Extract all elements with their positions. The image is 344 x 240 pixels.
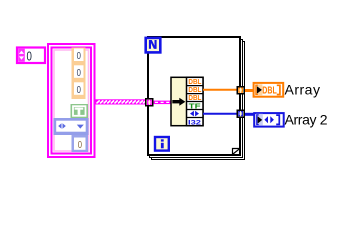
boolean constant T [71,104,89,118]
output tunnel DBL [236,86,245,95]
numeric constant DBL 0 (1) [72,48,86,64]
svg-text:TF: TF [189,101,202,110]
wire: DBL array to indicator [245,89,253,92]
array index display [17,48,45,64]
svg-text:DBL: DBL [262,84,277,96]
array constant shell [48,44,95,157]
page curl (dog-ear) [233,149,241,155]
wire: DBL scalar inside loop [203,89,237,91]
for loop page 3 (back) [151,41,245,160]
for loop page 2 [149,39,243,158]
unbundle input arrow [172,98,185,106]
wire: ring scalar inside loop [203,113,237,115]
output tunnel ring [236,109,245,118]
svg-text:Array: Array [285,81,321,97]
svg-text:0: 0 [77,68,82,79]
indicator Array (DBL array) [254,83,284,97]
svg-text:0: 0 [78,140,83,151]
wire: ring array to indicator [245,113,254,116]
ring constant [54,118,89,135]
unbundle function body [171,77,203,125]
terminal ring [190,111,199,117]
indicator Array 2 (ring array) [254,113,284,127]
svg-text:Array 2: Array 2 [285,111,328,127]
N terminal [146,38,161,53]
unbundle terminal rows [187,77,204,125]
svg-text:0: 0 [27,49,32,63]
wire: cluster (dashed magenta) [154,101,172,105]
numeric constant I32 0 [72,135,89,152]
wire: thick array-of-clusters (hatched magenta) [95,99,145,104]
i terminal [155,137,169,151]
cluster constant frame [52,48,92,154]
svg-text:0: 0 [77,85,82,96]
numeric constant DBL 0 (3) [72,80,86,99]
for loop front frame [147,36,241,156]
svg-text:0: 0 [77,51,82,62]
numeric constant DBL 0 (2) [72,63,86,80]
input tunnel (auto-indexing) [145,98,154,107]
svg-text:I32: I32 [188,119,202,126]
